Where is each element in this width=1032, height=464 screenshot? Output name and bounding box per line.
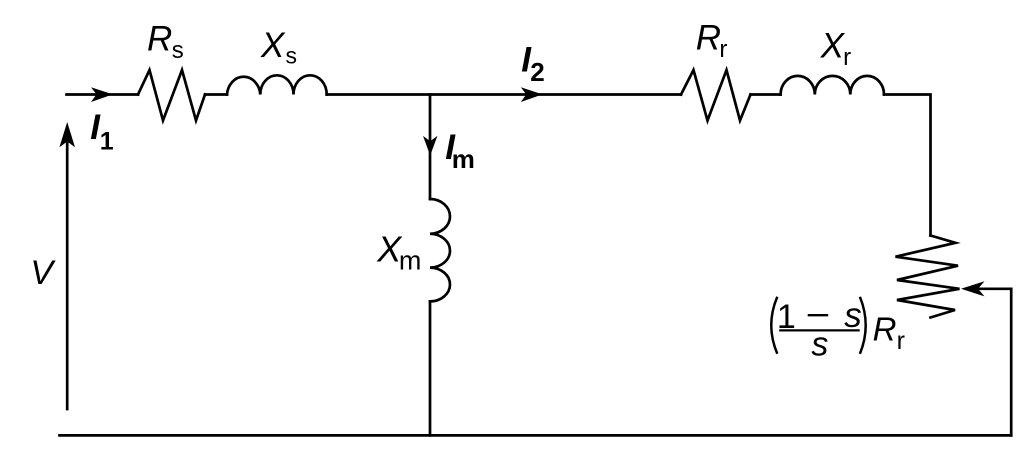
wire wiper tap to right rail (979, 287, 1011, 290)
wire Rs to Xs (205, 93, 227, 96)
resistor R3 rheostat (1-s)/s Rr zigzag (896, 236, 960, 318)
svg-text:X: X (260, 26, 286, 65)
svg-text:m: m (452, 144, 475, 174)
arrowhead rheostat wiper left (961, 281, 985, 296)
wire top-left input (67, 93, 139, 96)
svg-text:1: 1 (100, 127, 114, 155)
svg-text:2: 2 (530, 57, 544, 87)
svg-text:m: m (399, 245, 422, 275)
wire node A down to Xm branch (429, 95, 432, 200)
arrowhead I2 on middle wire (521, 87, 543, 102)
arrowhead I1 on input wire (91, 87, 113, 102)
svg-text:s: s (811, 326, 828, 364)
svg-text:V: V (30, 254, 56, 292)
resistor R1 Rs zigzag (138, 70, 205, 121)
svg-text:s: s (172, 37, 184, 64)
svg-text:r: r (897, 327, 905, 355)
svg-text:R: R (873, 310, 897, 347)
resistor R2 Rr zigzag (681, 70, 751, 121)
wire V arrow shaft (66, 143, 69, 409)
arrowhead V up (59, 122, 75, 147)
svg-text:s: s (286, 42, 298, 68)
svg-text:R: R (147, 20, 172, 59)
wire Xr to right corner down to rheostat (884, 95, 931, 236)
wire Xs to node A and on to Rr (327, 93, 681, 96)
wire Xm to bottom rail (429, 301, 432, 435)
label fraction (1-s)/s Rr : left paren (771, 297, 777, 354)
arrowhead Im down (423, 136, 437, 156)
svg-text:R: R (696, 19, 721, 58)
svg-text:r: r (843, 44, 851, 71)
label fraction right paren (860, 297, 866, 354)
wire Rr to Xr (751, 93, 781, 96)
inductor L1 Xs (227, 75, 327, 94)
svg-text:r: r (719, 36, 727, 63)
wire right rail down (1010, 289, 1013, 436)
label fraction bar (779, 329, 860, 331)
wire bottom rail (60, 434, 1012, 437)
svg-text:X: X (820, 26, 846, 65)
inductor L3 Xm vertical (430, 199, 450, 301)
inductor L2 Xr (781, 76, 884, 95)
